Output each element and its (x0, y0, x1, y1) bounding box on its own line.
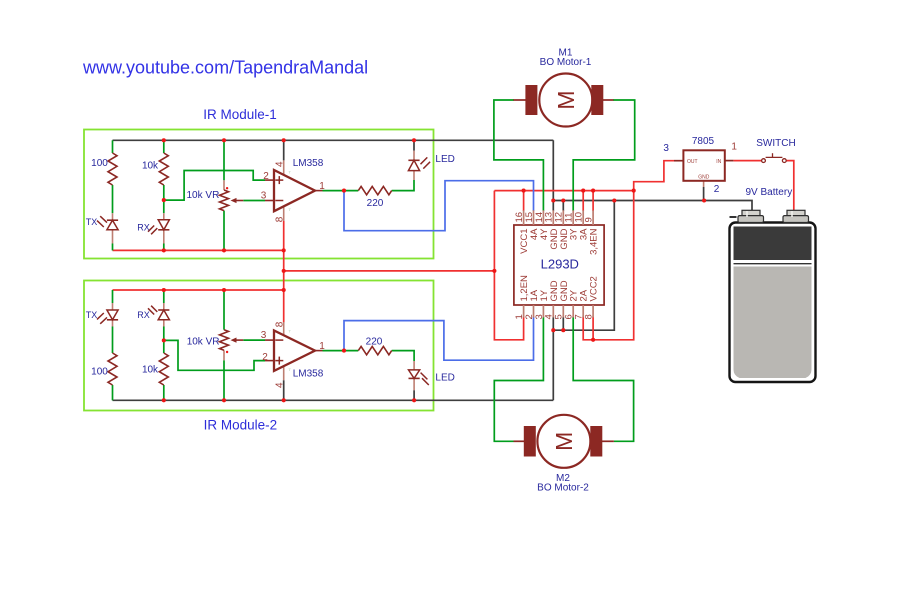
LED1 indicator (408, 157, 430, 170)
lead TX1 top (112, 213, 114, 220)
wire U1 out to R3 (323, 190, 359, 192)
node link-via (492, 269, 496, 273)
node gnd-pin4 (551, 328, 555, 332)
lead LED2 gray (413, 390, 415, 400)
VR2 wiper end dot (226, 351, 228, 353)
node spine-link (282, 269, 286, 273)
wire L293D pin 16 VCC1 up (523, 191, 525, 211)
svg-text:3,4EN: 3,4EN (589, 228, 600, 255)
resistor R5 10k module-2 (159, 353, 168, 385)
wire 7805 IN to switch (733, 160, 761, 162)
lead U1 pin4 (283, 160, 285, 176)
wire R1 top (112, 140, 114, 153)
battery minus sign (730, 216, 737, 218)
lead TX2 bottom (112, 320, 114, 327)
U3 top pin 9 stub (592, 210, 594, 225)
svg-text:1: 1 (731, 141, 737, 152)
wire VR1 bottom (223, 211, 225, 251)
svg-text:LED: LED (435, 154, 454, 165)
wire V+ link to IR modules (284, 270, 495, 272)
U3 bottom pin 5 stub (562, 305, 564, 318)
svg-text:7805: 7805 (692, 136, 715, 147)
svg-text:IR Module-2: IR Module-2 (204, 418, 278, 433)
potentiometer VR2 10k (220, 330, 229, 351)
svg-text:10k: 10k (142, 161, 159, 172)
U3 bottom pin 2 stub (533, 305, 535, 318)
wire GND rail module-2 bottom (113, 399, 554, 401)
lead RX1 bottom (163, 230, 165, 244)
lead VR2 bottom (223, 350, 225, 360)
node rail2-U2pin4 (282, 398, 286, 402)
wire switch to battery plus (786, 161, 794, 211)
node m1red-RX1 (162, 248, 166, 252)
U3 bottom pin 4 stub (552, 305, 554, 318)
wire 7805 OUT step (634, 161, 674, 191)
wire VR1 top (223, 140, 225, 180)
svg-text:100: 100 (91, 367, 108, 378)
svg-text:100: 100 (91, 158, 108, 169)
lead U1 pin8 (283, 206, 285, 221)
U3 bottom pin 8 stub (592, 305, 594, 318)
wire pin 6 to motor M2 right (573, 317, 633, 442)
VR2 wiper arrow (231, 338, 237, 343)
U3 bottom pin 1 stub (523, 305, 525, 318)
svg-text:10k VR: 10k VR (187, 337, 220, 348)
node gnd-pin12 (561, 198, 565, 202)
node gnd-pin13 (551, 198, 555, 202)
node gnd-pin5 (561, 328, 565, 332)
wire motor M1 left to pin 14 (494, 100, 544, 211)
U3 bottom pin 6 stub (572, 305, 574, 318)
svg-text:220: 220 (367, 198, 384, 209)
wire V+ feed to L293D pin 1 (494, 191, 523, 340)
svg-text:LM358: LM358 (293, 158, 324, 169)
svg-text:M: M (551, 432, 577, 451)
wire R1 to TX1 (112, 185, 114, 213)
node vrail-pin10 (581, 189, 585, 193)
motor M2 symbol (514, 415, 614, 468)
svg-text:TX: TX (86, 217, 98, 227)
svg-text:BO Motor-1: BO Motor-1 (540, 57, 592, 68)
wire L293D pin 8 VCC2 down (592, 317, 594, 340)
svg-text:GND: GND (698, 174, 710, 180)
lead RX2 bottom (163, 320, 165, 327)
node vrail-pin16 (522, 189, 526, 193)
U3 top pin 11 stub (572, 210, 574, 225)
svg-text:IR Module-1: IR Module-1 (203, 107, 277, 122)
node gnd-7805 (702, 198, 706, 202)
node A 10k-RX1 (162, 198, 166, 202)
battery BT1 9V body (730, 223, 816, 383)
wire V+ op-amp supply spine (283, 221, 285, 323)
svg-text:1: 1 (319, 341, 325, 352)
node vrail-7805 (632, 189, 636, 193)
lead VR1 top (223, 180, 225, 190)
wire U2 out to R6 (323, 350, 359, 352)
U3 top pin 13 stub (552, 210, 554, 225)
wire node A to op-amp U1 pin2 (164, 171, 265, 201)
svg-text:2: 2 (262, 352, 268, 363)
svg-text:1: 1 (319, 181, 325, 192)
resistor R2 10k module-1 (159, 153, 168, 185)
diode TX2 IR emitter (97, 310, 118, 324)
lead TX1 bottom (112, 230, 114, 244)
node U1 output (342, 189, 346, 193)
wire pin 3 to motor M2 left (494, 317, 543, 442)
U3 bottom pin 7 stub (582, 305, 584, 318)
diode RX1 IR receiver (148, 220, 169, 235)
node m2red-spine (282, 288, 286, 292)
wire VCC2 branch (583, 191, 634, 340)
wire RX2 top (163, 290, 165, 303)
wire GND rail module-1 top (113, 139, 554, 141)
U3 top pin 16 stub (523, 210, 525, 225)
wire U2 output to L293D pin 2 (344, 317, 534, 361)
svg-text:4: 4 (275, 382, 286, 388)
wire RX1 to rail (163, 244, 165, 251)
node m1red-VR1 (222, 248, 226, 252)
svg-text:M: M (553, 90, 579, 109)
VR1 wiper stub (233, 200, 243, 202)
lead U2 pin8 (283, 322, 285, 336)
diode RX2 IR receiver (148, 306, 169, 320)
node rail1-U1pin4 (282, 138, 286, 142)
wire R2 to node A (163, 185, 165, 213)
lead LED2 top (413, 361, 415, 370)
switch S1 (762, 153, 787, 162)
VR1 wiper arrow (231, 198, 237, 203)
node m2red-RX2 (162, 288, 166, 292)
wire V+ rail module-1 bottom (113, 249, 284, 251)
lead LED1 gray (413, 140, 415, 150)
svg-text:3: 3 (261, 191, 267, 202)
wire VR2 wiper green (243, 339, 265, 341)
IR Module-1 box (84, 130, 434, 259)
node rail1-VR1 (222, 138, 226, 142)
potentiometer VR1 10k (220, 190, 229, 211)
motor M1 symbol (513, 74, 613, 127)
svg-text:VCC2: VCC2 (589, 276, 600, 301)
svg-text:SWITCH: SWITCH (756, 138, 795, 149)
U3 top pin 15 stub (533, 210, 535, 225)
svg-text:8: 8 (275, 216, 286, 222)
wire GND bus to battery minus (553, 201, 752, 212)
svg-text:RX: RX (137, 310, 150, 320)
resistor R6 220 module-2 (358, 346, 391, 354)
svg-text:OUT: OUT (687, 159, 698, 165)
wire VR2 bottom (223, 360, 225, 400)
node rail2-LED2 (412, 398, 416, 402)
wire node B to op-amp U2 pin2 (164, 340, 265, 370)
wire R2 top (163, 140, 165, 153)
wire GND L293D pin 5 lead down (562, 317, 564, 331)
wire GND riser to L293D pin 13 (552, 140, 554, 211)
LED2 indicator (409, 370, 429, 385)
lead LED2 bottom (413, 378, 415, 390)
U3 top pin 14 stub (542, 210, 544, 225)
wire L293D pin 10 up (582, 191, 584, 211)
lead RX2 top (163, 303, 165, 310)
IC U3 L293D motor driver body (514, 225, 604, 305)
lead RX1 top (163, 213, 165, 220)
wire VR2 top (223, 290, 225, 330)
svg-text:IN: IN (716, 159, 721, 165)
svg-text:8: 8 (584, 314, 595, 319)
U3 top pin 10 stub (582, 210, 584, 225)
svg-text:RX: RX (137, 223, 150, 233)
svg-text:L293D: L293D (541, 256, 579, 271)
wire L293D pin 9 up (592, 191, 594, 211)
svg-text:LM358: LM358 (293, 368, 324, 379)
wire R5 to rail2 (163, 385, 165, 400)
diode TX1 IR emitter (97, 216, 118, 230)
resistor R4 100 module-2 (108, 353, 117, 385)
node rail1-R2 (162, 138, 166, 142)
svg-text:8: 8 (275, 321, 286, 327)
wire GND right branch down (553, 201, 614, 331)
svg-text:10k VR: 10k VR (187, 190, 220, 201)
lead TX2 top (112, 303, 114, 310)
VR1 wiper end dot (226, 187, 228, 189)
wire GND L293D pin 4 lead down (552, 317, 554, 331)
wire R3 to LED1 (392, 180, 414, 191)
lead LED1 bottom (413, 171, 415, 180)
wire R5 node B down (163, 340, 165, 353)
wire TX2 to R4 (112, 327, 114, 354)
wire RX2 to node B (163, 327, 165, 341)
resistor R1 100 module-1 (108, 153, 117, 185)
regulator U4 7805 body (674, 150, 733, 181)
wire TX1 to rail (112, 244, 114, 251)
wire op-amp U2 pin4 to rail (283, 380, 285, 400)
svg-text:9V Battery: 9V Battery (746, 187, 793, 198)
node rail2-VR2 (222, 398, 226, 402)
wire 7805 GND to bus (703, 187, 705, 201)
op-amp U1 LM358 module-1 (265, 170, 323, 211)
node rail2-R5 (162, 398, 166, 402)
IR Module-2 box (84, 281, 434, 411)
svg-text:2: 2 (714, 184, 720, 195)
wire motor M1 right to pin 11 (573, 100, 635, 211)
lead LED1 top (413, 151, 415, 161)
wire R4 top module-2 (112, 290, 114, 303)
svg-text:9: 9 (584, 217, 595, 222)
op-amp U2 LM358 module-2 (265, 331, 323, 371)
svg-text:BO Motor-2: BO Motor-2 (537, 482, 589, 493)
svg-text:4: 4 (275, 161, 286, 167)
U3 bottom pin 3 stub (542, 305, 544, 318)
wire op-amp U1 pin4 to rail (283, 140, 285, 160)
svg-text:3: 3 (663, 143, 669, 154)
lead U2 pin4 (283, 366, 285, 380)
svg-text:LED: LED (435, 373, 454, 384)
wire U1 output to L293D pin 15 (344, 181, 534, 231)
wire GND riser module-2 (552, 330, 554, 400)
node U2 output (342, 349, 346, 353)
wire VR1 wiper green (243, 200, 265, 202)
wire R4 to rail2 (112, 385, 114, 400)
VR2 wiper stub (233, 339, 243, 341)
U3 top pin 12 stub (562, 210, 564, 225)
svg-text:10k: 10k (142, 364, 159, 375)
wire R6 to LED2 (392, 351, 414, 361)
node gnd-branch (612, 198, 616, 202)
node m1red-spine (282, 248, 286, 252)
node rail1-LED1 (412, 138, 416, 142)
svg-text:2: 2 (263, 171, 269, 182)
node m2red-VR2 (222, 288, 226, 292)
resistor R3 220 module-1 (358, 186, 391, 194)
wire V+ rail module-2 top (113, 289, 284, 291)
battery plus terminal (783, 210, 809, 222)
wire GND branch L293D pin 12 (562, 201, 564, 212)
svg-text:220: 220 (366, 336, 383, 347)
lead 7805 GND (703, 181, 705, 187)
battery minus terminal (738, 210, 764, 222)
node vrail-pin9 (591, 189, 595, 193)
svg-text:3: 3 (261, 330, 267, 341)
svg-text:TX: TX (86, 310, 98, 320)
wire V+ rail above L293D (494, 190, 633, 192)
node B 10k-RX2 (162, 338, 166, 342)
node vcc2-pin8 (591, 338, 595, 342)
svg-text:www.youtube.com/TapendraMandal: www.youtube.com/TapendraMandal (82, 58, 368, 78)
